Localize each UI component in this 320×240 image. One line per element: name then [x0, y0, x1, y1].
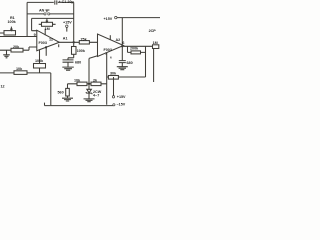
- svg-text:100k: 100k: [8, 20, 17, 24]
- svg-text:−15V: −15V: [117, 102, 126, 106]
- svg-text:30k: 30k: [110, 71, 117, 75]
- svg-text:+ C1 20µ: + C1 20µ: [59, 0, 74, 4]
- svg-text:F003: F003: [39, 41, 47, 45]
- svg-text:100k: 100k: [77, 49, 86, 53]
- svg-text:20k: 20k: [13, 45, 20, 49]
- svg-text:680: 680: [75, 61, 81, 65]
- svg-text:A1: A1: [63, 36, 68, 40]
- svg-text:6: 6: [45, 45, 47, 49]
- svg-text:560: 560: [58, 91, 64, 95]
- svg-text:680: 680: [127, 61, 133, 65]
- svg-text:75k: 75k: [81, 37, 88, 41]
- svg-text:200k: 200k: [130, 47, 139, 51]
- svg-text:100k: 100k: [35, 59, 44, 63]
- svg-text:+15V: +15V: [104, 17, 113, 21]
- svg-text:A2: A2: [116, 38, 121, 42]
- svg-text:10k: 10k: [16, 67, 23, 71]
- svg-text:6: 6: [122, 41, 124, 45]
- svg-text:4~7: 4~7: [93, 94, 99, 98]
- svg-text:12: 12: [49, 37, 53, 41]
- svg-text:12: 12: [1, 85, 5, 89]
- svg-text:1M: 1M: [153, 41, 158, 45]
- svg-text:+15V: +15V: [117, 95, 126, 99]
- svg-text:+15V: +15V: [63, 20, 72, 24]
- svg-text:10k: 10k: [74, 79, 81, 83]
- svg-text:AN: AN: [39, 8, 45, 12]
- svg-text:1M: 1M: [45, 27, 50, 31]
- svg-text:9: 9: [34, 33, 36, 37]
- svg-text:2CP: 2CP: [149, 29, 157, 33]
